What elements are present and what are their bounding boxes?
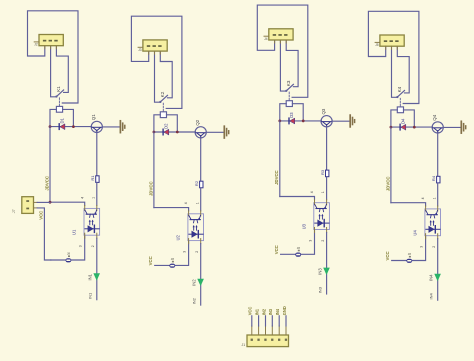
svg-text:IN1: IN1 — [88, 292, 93, 299]
pin stub J7.1 — [34, 201, 38, 203]
relay K3 contact blade — [286, 84, 293, 91]
input port triangle IN2 — [197, 279, 204, 286]
svg-text:VCC: VCC — [148, 256, 153, 265]
wire: coil right pin down to diode row — [63, 109, 74, 126]
relay contact pivot dot — [159, 101, 161, 103]
relay contact pivot dot — [285, 90, 287, 92]
svg-text:IN2: IN2 — [192, 279, 197, 286]
svg-text:J7: J7 — [12, 209, 16, 213]
wire: transistor emitter down to resistor R1 — [96, 132, 98, 176]
svg-text:IN3: IN3 — [317, 286, 322, 293]
svg-text:K2: K2 — [160, 91, 165, 97]
svg-text:VCC: VCC — [385, 251, 390, 260]
transistor Q2 — [195, 127, 206, 138]
svg-text:U2: U2 — [176, 234, 181, 240]
svg-text:Q1: Q1 — [91, 114, 96, 120]
relay K1 coil box — [56, 106, 62, 112]
svg-text:J4: J4 — [264, 37, 268, 41]
relay K4 coil box — [397, 107, 403, 113]
svg-text:R1: R1 — [90, 175, 95, 181]
junction dot (coil / diode) — [176, 131, 179, 134]
resistor R4 — [437, 176, 440, 183]
wire: resistor to opto pin 1 — [96, 182, 98, 205]
wire: connector middle pin to relay common pivot — [155, 51, 161, 102]
svg-text:U3: U3 — [302, 223, 307, 229]
wire: rail to opto pin 4 — [391, 203, 426, 206]
wire: diode row to transistor base — [391, 126, 433, 128]
svg-text:D3: D3 — [289, 112, 294, 118]
svg-text:1: 1 — [321, 191, 325, 193]
svg-text:K4: K4 — [397, 86, 402, 92]
input port triangle IN4 — [434, 274, 441, 281]
wire: connector right pin to relay NC contact — [286, 40, 298, 87]
wire: relay K3 NO contact loop to connector J4 pin — [257, 5, 308, 97]
svg-text:JDVCC: JDVCC — [44, 176, 49, 191]
svg-text:JDVCC: JDVCC — [385, 177, 390, 192]
svg-text:1: 1 — [195, 202, 199, 204]
input port triangle IN1 — [93, 273, 100, 280]
wire: opto pin 2 to input port IN2 — [200, 244, 202, 306]
wire: transistor to power ground — [443, 126, 461, 128]
svg-text:D4: D4 — [400, 118, 405, 124]
svg-text:3: 3 — [79, 245, 83, 247]
relay linkage (dashed) — [58, 98, 60, 106]
svg-text:D1: D1 — [59, 117, 64, 123]
junction dot (J7 tap) — [49, 201, 52, 204]
svg-text:JDVCC: JDVCC — [274, 170, 279, 185]
svg-text:4: 4 — [80, 197, 84, 199]
wire: coil left pin to JDVCC rail — [50, 109, 56, 126]
jumper pin mark — [172, 261, 174, 263]
wire: VCC row to opto pin 3 — [155, 241, 189, 266]
relay linkage (dashed) — [288, 92, 290, 100]
jumper bead on VCC row — [295, 253, 301, 257]
svg-text:IN3: IN3 — [317, 268, 322, 275]
connector J1 (6-pin header) — [247, 335, 289, 347]
svg-text:IN1: IN1 — [88, 273, 93, 280]
svg-text:1: 1 — [91, 197, 95, 199]
svg-text:2: 2 — [91, 245, 95, 247]
wire: relay K2 NO contact loop to connector J3 pin — [131, 16, 182, 108]
wire: VCC row to opto pin 3 — [51, 235, 85, 260]
svg-text:VCC: VCC — [38, 211, 43, 220]
header pin 6 (GND) — [285, 316, 287, 341]
relay K2 contact blade — [160, 95, 167, 102]
svg-text:2: 2 — [321, 240, 325, 242]
wire: JDVCC rail — [153, 132, 155, 208]
wire: coil left pin to JDVCC rail — [154, 115, 160, 132]
relay contact pivot dot — [55, 95, 57, 97]
svg-text:J3: J3 — [138, 48, 142, 52]
wire: resistor to opto pin 1 — [437, 183, 439, 206]
relay K3 coil box — [286, 101, 292, 107]
svg-text:U1: U1 — [72, 229, 77, 235]
wire: coil left pin to JDVCC rail — [391, 110, 397, 127]
wire: connector right pin to relay NC contact — [56, 46, 68, 93]
wire: connector right pin to relay NC contact — [160, 51, 172, 98]
svg-text:Q4: Q4 — [432, 114, 437, 120]
diode D4 (flyback) — [400, 124, 406, 130]
svg-text:GND: GND — [282, 306, 287, 315]
svg-text:R2: R2 — [194, 180, 199, 186]
header pin 1 (VCC) — [251, 316, 253, 341]
optocoupler U4 — [425, 206, 441, 239]
junction dot (JDVCC rail / diode) — [153, 131, 156, 134]
svg-text:VCC: VCC — [274, 245, 279, 254]
transistor Q4 — [432, 122, 443, 133]
svg-text:IN2: IN2 — [191, 297, 196, 304]
transistor Q1 — [91, 121, 102, 132]
wire: J7 pin 2 to VCC net — [37, 208, 51, 260]
wire: VCC row to opto pin 3 — [392, 236, 426, 261]
junction dot (coil / diode) — [413, 126, 416, 129]
junction dot (coil / diode) — [302, 120, 305, 123]
resistor R2 — [200, 181, 203, 188]
relay K4 contact blade — [397, 91, 404, 98]
svg-text:R3: R3 — [320, 169, 325, 175]
svg-text:IN3: IN3 — [268, 308, 273, 315]
connector J2 (3-pin terminal block) — [34, 35, 63, 49]
wire: transistor emitter down to resistor R2 — [200, 138, 202, 182]
optocoupler U1 — [84, 206, 100, 239]
wire: rail to opto pin 4 — [154, 208, 189, 211]
svg-text:1: 1 — [432, 197, 436, 199]
wire: opto pin 2 to input port IN1 — [96, 238, 98, 300]
wire: diode row to transistor base — [280, 120, 322, 122]
wire: JDVCC rail — [49, 127, 51, 203]
svg-text:J2: J2 — [34, 43, 38, 47]
relay K1 contact blade — [56, 90, 63, 97]
wire: opto pin 2 to input port IN4 — [437, 239, 439, 301]
wire: coil right pin down to diode row — [292, 104, 303, 121]
wire: resistor to opto pin 1 — [200, 188, 202, 211]
wire: diode row to transistor base — [50, 126, 92, 128]
header pin 2 (IN1) — [257, 316, 259, 341]
svg-text:IN2: IN2 — [261, 308, 266, 315]
wire: transistor emitter down to resistor R3 — [326, 127, 328, 171]
diode D2 (flyback) — [163, 129, 169, 135]
relay contact pivot dot — [396, 96, 398, 98]
power ground symbol — [120, 121, 124, 133]
svg-text:J8: J8 — [67, 252, 71, 256]
relay K2 coil box — [160, 112, 166, 118]
svg-text:2: 2 — [432, 246, 436, 248]
wire: connector right pin to relay NC contact — [397, 46, 409, 93]
header pin 4 (IN3) — [271, 316, 273, 341]
transistor Q3 — [321, 116, 332, 127]
wire: coil right pin down to diode row — [404, 110, 415, 127]
svg-text:3: 3 — [419, 246, 423, 248]
jumper pin mark — [68, 255, 70, 257]
svg-text:K1: K1 — [56, 86, 61, 92]
wire: relay K1 NO contact loop to connector J2 pin — [28, 11, 79, 103]
wire: relay K4 NO contact loop to connector J5 pin — [368, 11, 419, 103]
wire: connector middle pin to relay common pivot — [280, 40, 286, 91]
header pin 5 (IN4) — [278, 316, 280, 341]
optocoupler U3 — [314, 200, 330, 233]
pin stub J7.2 — [34, 207, 38, 209]
svg-text:4: 4 — [310, 191, 314, 193]
svg-text:3: 3 — [182, 251, 186, 253]
svg-text:IN1: IN1 — [254, 308, 259, 315]
power ground symbol — [461, 121, 465, 133]
diode D1 (flyback) — [59, 124, 65, 130]
resistor R3 — [326, 170, 329, 177]
svg-text:VCC: VCC — [248, 307, 253, 316]
svg-text:Q2: Q2 — [195, 119, 200, 125]
svg-text:J5: J5 — [375, 43, 379, 47]
wire: JDVCC rail — [390, 127, 392, 203]
wire: J7 pin 1 to JDVCC junction — [37, 201, 50, 203]
junction dot (coil / diode) — [72, 125, 75, 128]
wire: opto pin 2 to input port IN3 — [326, 233, 328, 295]
svg-text:IN4: IN4 — [429, 274, 434, 281]
connector J5 (3-pin terminal block) — [375, 35, 404, 49]
svg-text:2: 2 — [195, 251, 199, 253]
svg-text:J8: J8 — [297, 246, 301, 250]
wire: transistor to power ground — [332, 120, 350, 122]
svg-text:U4: U4 — [413, 230, 418, 236]
jumper bead on VCC row — [406, 259, 412, 263]
svg-text:Q3: Q3 — [321, 108, 326, 114]
connector J3 (3-pin terminal block) — [138, 40, 167, 54]
header pin 3 (IN2) — [264, 316, 266, 341]
wire: rail to opto pin 4 — [280, 197, 315, 200]
wire: transistor to power ground — [206, 131, 224, 133]
svg-text:IN4: IN4 — [275, 308, 280, 315]
jumper bead on VCC row — [169, 264, 175, 268]
svg-text:J1: J1 — [242, 343, 246, 347]
jumper pin mark — [298, 250, 300, 252]
svg-text:IN4: IN4 — [428, 293, 433, 300]
svg-text:K3: K3 — [286, 80, 291, 86]
wire: rail to opto pin 4 — [50, 202, 85, 205]
svg-text:4: 4 — [421, 197, 425, 199]
wire: transistor to power ground — [102, 126, 120, 128]
jumper pin mark — [409, 256, 411, 258]
relay linkage (dashed) — [399, 98, 401, 106]
resistor R1 — [96, 176, 99, 183]
wire: transistor emitter down to resistor R4 — [437, 133, 439, 177]
svg-text:3: 3 — [308, 240, 312, 242]
svg-text:JDVCC: JDVCC — [148, 181, 153, 196]
optocoupler U2 — [188, 211, 204, 244]
svg-text:J8: J8 — [171, 257, 175, 261]
relay linkage (dashed) — [162, 103, 164, 111]
power ground symbol — [350, 115, 354, 127]
wire: diode row to transistor base — [154, 131, 196, 133]
wire: connector middle pin to relay common pivot — [392, 46, 398, 97]
junction dot (JDVCC rail / diode) — [278, 120, 281, 123]
junction dot (JDVCC rail / diode) — [390, 126, 393, 129]
wire: coil left pin to JDVCC rail — [280, 104, 286, 121]
wire: JDVCC rail — [279, 121, 281, 197]
wire: VCC row to opto pin 3 — [281, 230, 315, 255]
junction dot (JDVCC rail / diode) — [49, 125, 52, 128]
diode D3 (flyback) — [289, 118, 295, 124]
wire: resistor to opto pin 1 — [326, 177, 328, 200]
connector J4 (3-pin terminal block) — [264, 29, 293, 43]
wire: coil right pin down to diode row — [167, 115, 178, 132]
svg-text:4: 4 — [184, 202, 188, 204]
wire: connector middle pin to relay common pivot — [51, 46, 57, 97]
jumper bead on VCC row — [66, 258, 72, 262]
svg-text:D2: D2 — [163, 123, 168, 129]
svg-text:J8: J8 — [408, 252, 412, 256]
svg-text:R4: R4 — [431, 175, 436, 181]
input port triangle IN3 — [323, 268, 330, 275]
power ground symbol — [224, 126, 228, 138]
connector J7 (2-pin power select) — [22, 197, 34, 214]
